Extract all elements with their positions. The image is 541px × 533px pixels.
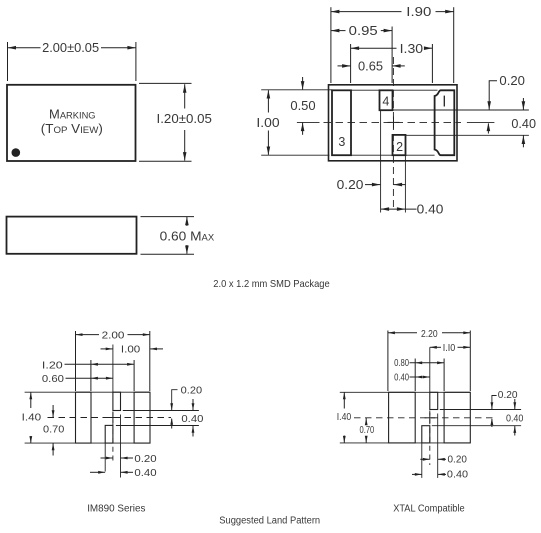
pad 1 (castellated) [435,90,455,155]
extension line pad 2 top (right side) [406,134,529,136]
dimension 1.10 (XTAL) [430,343,471,354]
extension line pad top (left side) [261,89,332,91]
package body outline (top view) [7,85,136,161]
construction line pad bottoms (XTAL) [340,442,471,444]
extension line bottom pad left (XTAL bottom) [421,443,423,478]
svg-text:0.80: 0.80 [394,358,409,369]
construction line pad tops (XTAL) [340,391,471,393]
dimension 0.40 (XTAL upper) [394,372,430,383]
svg-text:2.0 x 1.2 mm SMD Package: 2.0 x 1.2 mm SMD Package [213,278,330,290]
IM890 top center pad [113,392,121,410]
XTAL horizontal centerline [354,417,497,419]
svg-text:I.I0: I.I0 [443,343,456,354]
dimension 1.00 (IM890) [101,344,164,356]
extension line top pad right (XTAL bottom) [437,414,439,478]
extension line top pad bottom (IM890 right) [123,410,199,412]
dimension 0.40 (XTAL right) [506,399,524,436]
svg-text:XTAL Compatible: XTAL Compatible [393,503,465,514]
dimension 0.20 (XTAL bottom) [420,455,467,466]
horizontal centerline [297,121,495,123]
XTAL vertical centerline [429,347,431,465]
pad bottom alignment line (pad3 to pad2) [351,154,393,156]
center cross [388,117,400,129]
svg-text:0.95: 0.95 [349,24,378,38]
svg-text:2.20: 2.20 [421,329,438,340]
svg-text:0.20: 0.20 [134,453,156,465]
extension line top pad right (IM890 bottom) [120,415,122,478]
svg-text:0.40: 0.40 [134,467,156,479]
svg-text:0.60: 0.60 [42,373,64,385]
svg-text:0.20: 0.20 [448,455,468,466]
extension line pad 2 right (bottom) [404,155,406,212]
dimension 0.40 (IM890 bottom) [90,467,157,479]
svg-text:I.20±0.05: I.20±0.05 [157,111,212,126]
svg-text:2.00: 2.00 [102,330,125,342]
svg-text:I.90: I.90 [406,5,431,19]
svg-text:0.40: 0.40 [394,372,409,383]
XTAL bottom center pad [422,426,430,443]
svg-text:IM890 Series: IM890 Series [87,503,145,514]
svg-text:3: 3 [338,135,345,149]
IM890 right pad [134,392,150,443]
svg-text:0.40: 0.40 [506,414,524,425]
dimension 1.20 (IM890) [42,359,134,391]
svg-text:(Top View): (Top View) [41,122,103,136]
dimension 0.60 (IM890) [42,373,113,385]
XTAL center cross [425,413,436,424]
svg-text:Suggested Land Pattern: Suggested Land Pattern [219,515,320,526]
dimension 0.40 (XTAL bottom) [412,470,469,481]
vertical centerline [392,57,394,211]
svg-text:0.40: 0.40 [511,117,536,131]
dimension 0.70 (XTAL) [360,418,375,443]
extension line pad 4 left (bottom) [380,110,382,213]
dimension 0.60 Max (package thickness) [141,217,215,255]
XTAL left pad [389,392,416,443]
svg-text:I.20: I.20 [42,359,63,371]
dimension 1.90 (overall pad span) [331,5,454,83]
dimension 1.40 (IM890) [22,392,42,443]
extension line bottom pad top (IM890 right) [116,425,199,427]
pad top alignment line (pad4 to pad1) [393,89,438,91]
dimension 0.20 (right) [487,74,525,133]
pad 3 [332,90,351,155]
dimension 1.20±0.05 (package height) [139,83,212,161]
extension line pad 4 bottom (right side) [393,109,529,111]
extension line bottom pad top (XTAL right) [432,425,521,427]
IM890 vertical centerline [112,345,114,465]
svg-text:Marking: Marking [49,107,96,121]
svg-text:0.20: 0.20 [181,384,203,396]
svg-text:0.40: 0.40 [181,413,203,425]
extension line top pad bottom (XTAL right) [440,409,521,411]
svg-text:I.40: I.40 [22,411,42,423]
XTAL top center pad [430,392,438,409]
svg-text:0.20: 0.20 [499,74,525,88]
dimension 0.50 [290,77,315,135]
IM890 left pad [76,392,92,443]
pad 4 [380,90,393,110]
svg-text:0.20: 0.20 [337,178,364,192]
svg-text:2.00±0.05: 2.00±0.05 [42,40,99,55]
svg-text:I.00: I.00 [256,116,279,130]
svg-text:0.70: 0.70 [43,423,64,435]
svg-text:0.40: 0.40 [417,203,444,217]
dimension 1.40 (XTAL) [337,392,352,443]
svg-text:2: 2 [396,140,403,154]
construction line pad bottoms (IM890) [25,442,150,444]
dimension 0.70 (IM890) [43,405,64,456]
svg-text:0.65: 0.65 [358,59,383,73]
extension line bottom pad left (IM890 bottom) [104,443,106,471]
svg-text:0.60 Max: 0.60 Max [160,228,215,243]
dimension 2.00±0.05 (package width) [8,40,136,81]
pad top alignment line (pad3 to pad4) [351,89,380,91]
svg-text:I.00: I.00 [121,344,140,356]
package body outline (side view) [7,217,137,254]
pin 1 marking dot [12,148,21,157]
svg-text:4: 4 [382,95,389,109]
dimension 0.40 (IM890 right) [181,399,203,437]
IM890 center cross [108,412,119,423]
dimension 0.95 [331,24,392,83]
dimension 1.30 [351,42,433,83]
dimension 0.20 (XTAL right) [491,390,519,427]
package outline (bottom view) [329,85,458,161]
construction line pad tops (IM890) [25,391,150,393]
dimension 1.00 [256,90,279,155]
dimension 0.40 (bottom) [381,203,444,217]
dimension 0.20 (IM890 right) [170,384,202,428]
dimension 0.40 (right) [511,98,536,147]
dimension 2.20 (XTAL) [388,329,470,391]
svg-text:0.50: 0.50 [290,99,315,113]
pad bottom alignment line (pad2 to pad1) [406,154,435,156]
IM890 horizontal centerline [48,417,172,419]
dimension 0.20 (IM890 bottom) [101,453,157,465]
svg-text:0.40: 0.40 [447,470,469,481]
dimension 0.65 [338,59,405,73]
dimension 0.80 (XTAL) [394,358,444,391]
IM890 bottom center pad [105,425,113,443]
svg-text:0.70: 0.70 [360,425,375,436]
pad 2 [393,135,406,155]
extension line pad bottom (left side) [261,154,329,156]
dimension 0.20 (bottom) [337,178,406,192]
dimension 2.00 (IM890) [76,330,150,392]
XTAL right pad [444,392,470,443]
pin label 1 [443,96,445,107]
svg-text:I.30: I.30 [400,42,424,56]
svg-text:I.40: I.40 [337,412,352,423]
